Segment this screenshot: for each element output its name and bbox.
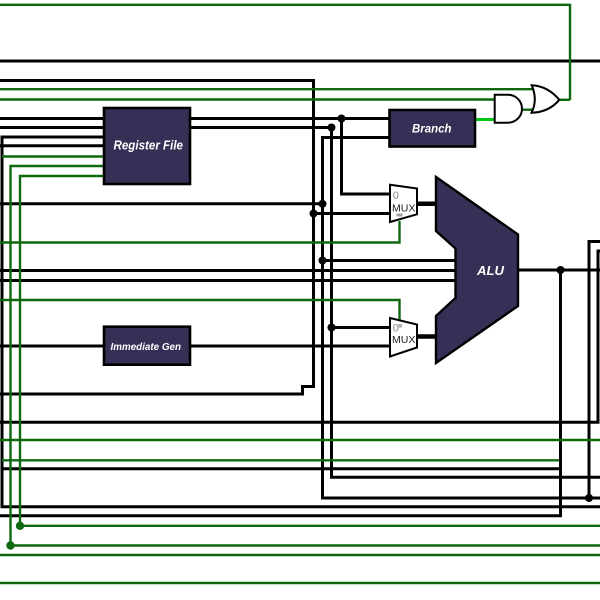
wire control feedback top y4.8 <box>0 5 570 100</box>
wire or gate in1 y89.7 <box>0 88 536 90</box>
wire mux1 output <box>416 202 437 207</box>
block branch <box>390 110 476 147</box>
wire or gate output <box>558 99 571 101</box>
wire mux2 output <box>416 334 438 339</box>
wire y422 up x598 to right edge y251 <box>0 251 600 422</box>
wire regfile in2 <box>0 126 104 129</box>
wire regfile in3 with left drop to y507 <box>2 137 600 507</box>
svg-text:0: 0 <box>393 323 399 335</box>
wire rs2 vertical x341 to mux1 in0 <box>342 119 392 195</box>
wire immgen out to mux2 in1 <box>190 345 390 348</box>
svg-text:ALU: ALU <box>476 263 504 278</box>
node rd2 x331 <box>328 124 336 132</box>
node x322 y203 <box>319 200 327 208</box>
wire branch in2 from x322 <box>323 138 600 499</box>
wire regfile in1 <box>0 117 104 120</box>
wire regfile in7 green from x20 <box>20 176 600 526</box>
or gate U4 <box>532 85 560 113</box>
wire and gate output <box>523 108 537 110</box>
wire regfile out1 to branch <box>190 117 390 120</box>
wire mux1 select y242 <box>0 221 400 243</box>
wire y203.8 to node x322 <box>0 202 323 205</box>
wire green y440 <box>0 439 600 441</box>
node x322 y260 <box>319 257 327 265</box>
WIRES-BLACK <box>0 61 600 516</box>
wire and gate in1 y100 <box>0 98 496 100</box>
wire green y583 <box>0 582 600 584</box>
wire y469 <box>2 467 561 470</box>
block register file <box>104 108 190 184</box>
wire green y555 <box>0 554 600 556</box>
wire mux2 select y300 <box>0 300 400 321</box>
node x313 y213 <box>310 210 318 218</box>
wire right edge y241 down x589 <box>589 242 600 499</box>
node green x10 y546 <box>6 541 14 549</box>
wire y80 jog to y394 via x313 <box>0 81 314 395</box>
wire mux2 in0 from x331 <box>332 326 391 329</box>
block immediate gen <box>104 327 190 365</box>
mux U2 <box>390 318 417 357</box>
wire regfile in6 green from x10.5 <box>11 166 600 546</box>
node alu out x560 <box>557 266 565 274</box>
node green x20 y525 <box>16 522 24 530</box>
wire green y460 <box>2 459 559 461</box>
svg-text:Branch: Branch <box>412 123 452 135</box>
wire mux1 in1 y213.5 <box>314 212 392 215</box>
svg-text:MUX: MUX <box>392 334 415 346</box>
wire regfile in5 green <box>2 155 104 157</box>
wire alu notch in3 <box>0 279 457 282</box>
wire vertical x331 down to y478 east <box>332 128 600 478</box>
node x589 y498 <box>585 494 593 502</box>
node x331 y327 <box>328 324 336 332</box>
wire alu notch in1 from node x322 <box>323 259 458 262</box>
block alu <box>436 177 518 363</box>
wire alu notch in2 <box>0 269 457 272</box>
wire branch output bright green <box>475 118 496 121</box>
wire alu output <box>518 269 600 272</box>
svg-text:Immediate Gen: Immediate Gen <box>111 342 182 353</box>
mux U1 <box>390 185 417 222</box>
svg-text:0: 0 <box>393 190 399 202</box>
wire instruction bus top y61 <box>0 60 600 63</box>
wire regfile in4 <box>0 144 104 147</box>
svg-text:MUX: MUX <box>392 203 415 215</box>
node rs2 x341 <box>338 115 346 123</box>
wire immgen input <box>0 345 104 348</box>
and gate U3 <box>495 95 522 123</box>
wire regfile out2 to x331 <box>190 126 332 129</box>
svg-text:Register File: Register File <box>114 137 184 152</box>
wire y516 up x560 to alu out <box>0 270 561 516</box>
